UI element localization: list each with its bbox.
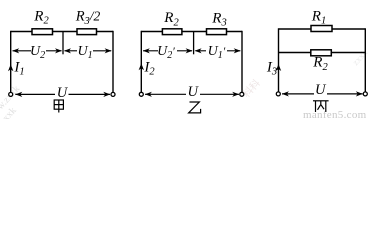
terminal node right (丙): [363, 92, 367, 96]
resistor R1 (丙): [311, 26, 332, 32]
resistor R2 (乙): [162, 29, 182, 35]
wire: right vertical conductor of 乙: [241, 31, 243, 92]
node: junction between R2 and R3/2 (甲): [62, 32, 64, 55]
label I1 (甲): [13, 59, 24, 77]
watermark diagonal middle: [240, 77, 263, 101]
resistor R2 (甲): [32, 29, 53, 35]
resistor R3/2 (甲): [77, 29, 97, 35]
wire: bottom dimension line U (甲): [15, 92, 110, 97]
wire: left vertical conductor of 丙: [278, 28, 280, 92]
dimension line U1 (甲): [64, 48, 112, 53]
current arrow I3 (丙): [276, 64, 281, 71]
label U2 (甲): [30, 44, 45, 61]
wire: top conductor of 乙: [141, 31, 242, 33]
node: junction between R2 and R3 (乙): [193, 32, 195, 55]
label R1 (丙): [311, 8, 326, 26]
wire: left vertical conductor of 乙: [140, 31, 142, 92]
label R2 (甲): [33, 8, 49, 26]
watermark diagonal bottom-left: [0, 84, 31, 134]
svg-text:U: U: [57, 85, 69, 101]
label U2' (乙): [157, 44, 175, 61]
label U (乙): [187, 84, 199, 100]
resistor R3 (乙): [207, 29, 227, 35]
terminal node left (乙): [139, 92, 143, 96]
label R2 (乙): [163, 10, 179, 28]
svg-text:manfen5.com: manfen5.com: [303, 109, 367, 119]
label 乙: [189, 102, 201, 113]
label U1 (甲): [77, 44, 92, 61]
dimension line U1' (乙): [195, 48, 241, 53]
wire: right vertical conductor of 甲: [112, 31, 114, 93]
wire: bottom dimension line U (丙): [282, 91, 363, 96]
label I2 (乙): [143, 59, 155, 77]
label I3 (丙): [266, 59, 277, 77]
dimension line U2' (乙): [143, 48, 193, 53]
wire: right vertical conductor of 丙: [364, 28, 366, 92]
label R2 (丙): [312, 55, 328, 73]
current arrow I2 (乙): [139, 63, 144, 70]
label 丙: [313, 101, 329, 112]
current arrow I1 (甲): [8, 64, 13, 71]
label U1' (乙): [208, 44, 226, 61]
svg-text:U: U: [187, 84, 199, 100]
terminal node left (甲): [9, 92, 13, 96]
terminal node right (甲): [111, 92, 115, 96]
terminal node left (丙): [276, 92, 280, 96]
label U (甲): [57, 85, 69, 101]
label 甲: [54, 100, 63, 113]
wire: left vertical conductor of 甲: [10, 31, 12, 93]
wire: bottom dimension line U (乙): [145, 92, 239, 97]
wire: top conductor of 丙: [279, 28, 366, 30]
wire: top conductor of 甲: [11, 31, 113, 33]
label R3 (乙): [211, 10, 226, 28]
watermark manfen5.com: [303, 109, 367, 121]
label U (丙): [315, 82, 327, 98]
watermark diagonal right: [350, 47, 369, 67]
dimension line U2 (甲): [12, 48, 62, 53]
svg-text:U: U: [315, 82, 327, 98]
resistor R2 (丙): [311, 50, 332, 56]
terminal node right (乙): [240, 92, 244, 96]
wire: middle parallel branch of 丙: [279, 52, 366, 54]
label R3/2 (甲): [75, 9, 101, 27]
